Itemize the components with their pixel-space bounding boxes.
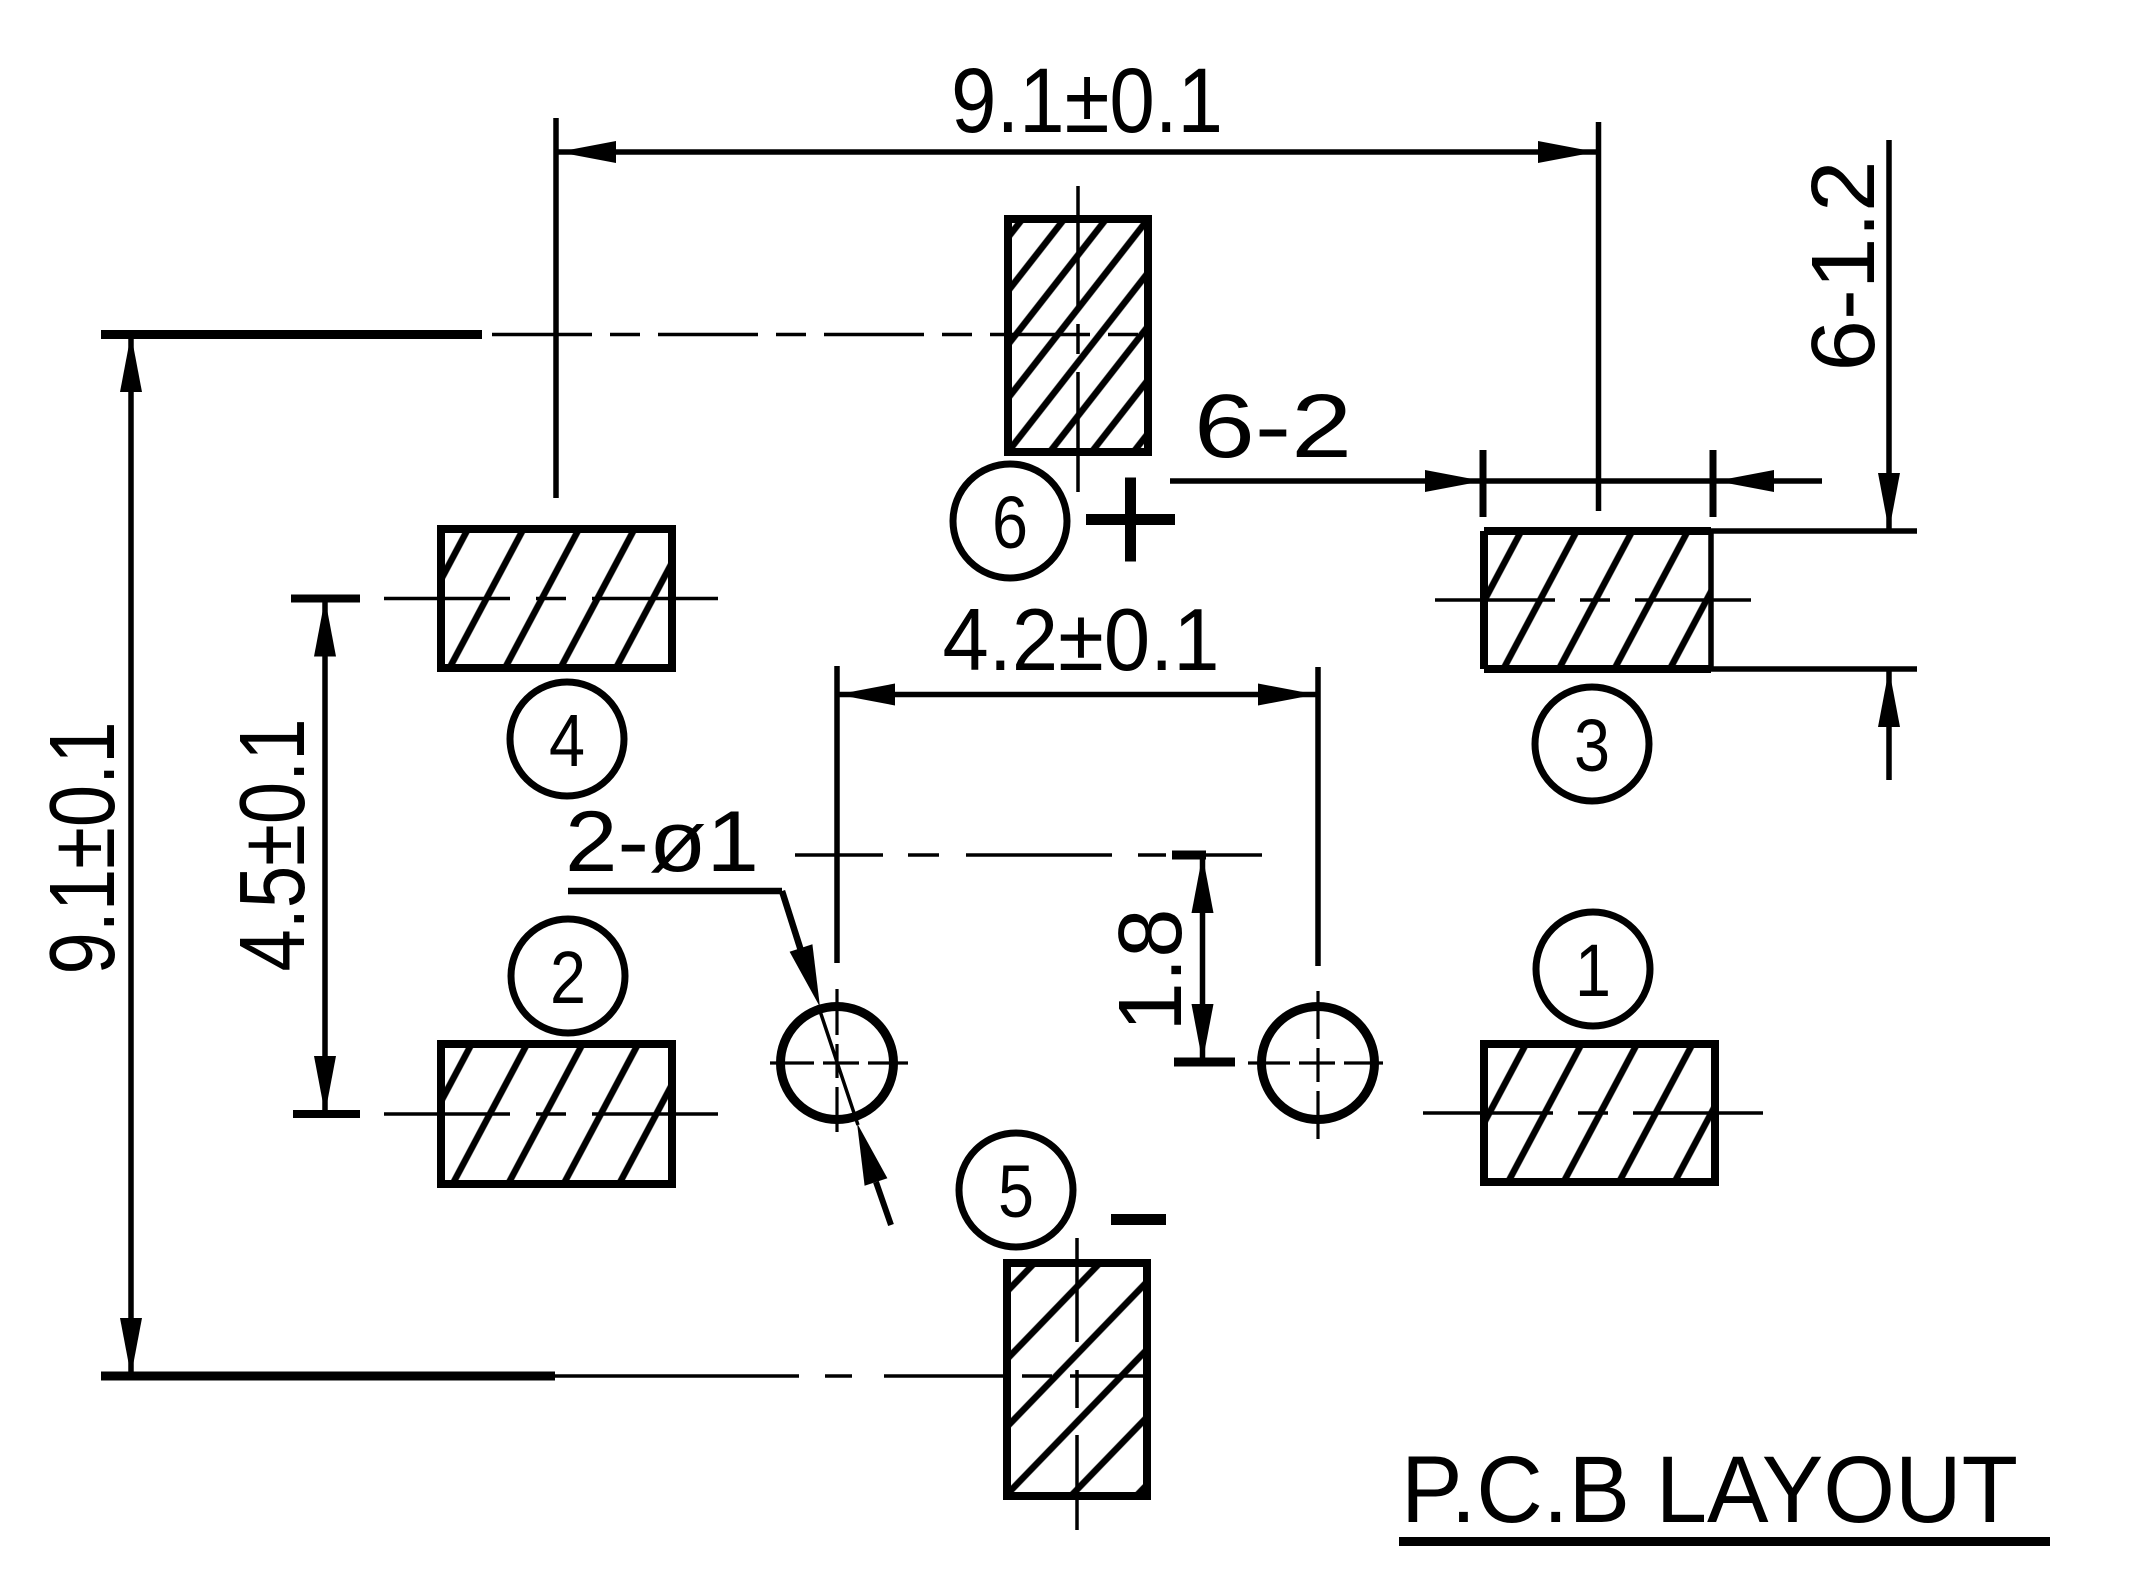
dimension 1.8: bottom tick [1174,1058,1235,1067]
svg-text:4.5±0.1: 4.5±0.1 [220,719,324,972]
boundary line top [101,330,482,339]
pin label 6: circle [953,464,1067,578]
svg-text:3: 3 [1574,704,1610,787]
svg-text:1: 1 [1575,929,1611,1012]
hole left (ø1) [781,1007,894,1120]
centerline bottom horizontal [555,1374,1145,1378]
hole left: horizontal center mark [770,1061,908,1064]
leader 2-ø1: thin line through hole [818,1005,858,1125]
dimension 9.1±0.1 top: left arrowhead [558,141,616,163]
dimension 9.1±0.1 top: dimension line [558,149,1596,155]
svg-text:6-1.2: 6-1.2 [1794,161,1894,372]
centerline vertical bottom (pad 5 axis) [1075,1238,1079,1530]
dimension 6-2: line between ticks [1483,478,1713,484]
hole right: vertical center mark [1316,991,1319,1139]
leader 2-ø1: arrowhead to hole [790,944,820,1007]
dimension 4.2±0.1: right extension line [1315,667,1321,966]
dimension 4.2±0.1: right arrowhead [1258,684,1316,706]
hole left: vertical center mark [835,989,838,1132]
pin label 5: circle [959,1133,1073,1247]
dimension 6-1.2: up arrowhead [1878,669,1900,727]
dimension 9.1±0.1 left: top arrowhead [120,334,142,392]
svg-text:2-ø1: 2-ø1 [565,794,759,890]
svg-text:2: 2 [550,936,586,1019]
centerline pad 2 [384,1112,723,1116]
hole right: horizontal center mark [1248,1061,1383,1064]
svg-text:9.1±0.1: 9.1±0.1 [30,722,134,975]
dimension 1.8: top tick [1172,851,1206,860]
leader 2-ø1: lower tail [876,1182,891,1225]
pad 3 (hatched) [1484,531,1711,669]
dimension 6-1.2: upper line [1886,140,1892,531]
pad 6 (hatched) [1008,219,1148,452]
svg-text:9.1±0.1: 9.1±0.1 [951,50,1223,152]
pad 3 edge extension lines [1711,531,1917,669]
dimension 4.2±0.1: left arrowhead [837,684,895,706]
dimension 4.5±0.1: dimension line [322,599,328,1115]
dimension 1.8: top arrowhead [1192,855,1214,913]
svg-text:P.C.B LAYOUT: P.C.B LAYOUT [1401,1437,2018,1543]
dimension 9.1±0.1 top: left extension line [553,118,559,498]
minus sign [1111,1214,1166,1225]
pad 2 (hatched) [441,1044,672,1184]
pin label 1: circle [1536,912,1650,1026]
centerline middle horizontal [795,853,1285,857]
dimension 1.8: dimension line [1200,855,1206,1062]
dimension 4.2±0.1: dimension line [837,692,1316,698]
dimension 4.5±0.1: top tick [291,595,360,603]
dimension 4.5±0.1: top arrowhead [314,599,336,657]
centerline pad 3 [1435,598,1751,602]
leader 2-ø1: slanted segment [782,891,803,957]
dimension 1.8: bottom arrowhead [1192,1004,1214,1062]
boundary line bottom [101,1372,555,1381]
dimension 6-2: tail line right [1716,478,1822,484]
centerline top horizontal [492,333,1148,337]
dimension 4.5±0.1: bottom arrowhead [314,1056,336,1114]
title underline [1399,1537,2050,1546]
plus sign [1086,478,1175,562]
dimension 9.1±0.1 left: bottom arrowhead [120,1318,142,1376]
centerline pad 4 [384,597,729,601]
pin label 4: circle [510,682,624,796]
dimension 4.5±0.1: bottom tick [293,1110,360,1118]
dimension 9.1±0.1 top: right extension line [1596,122,1602,511]
pin label 3: circle [1535,687,1649,801]
leader 2-ø1: lower arrowhead [857,1123,887,1186]
pin label 2: circle [511,919,625,1033]
pad 5 (hatched) [1007,1263,1147,1496]
dimension 6-2: dimension line left [1170,478,1483,484]
svg-text:6-2: 6-2 [1194,377,1352,477]
dimension 6-1.2: lower line [1886,669,1892,780]
dimension 6-1.2: down arrowhead [1878,473,1900,531]
dimension 6-2: tick left [1480,450,1487,517]
pad 4 (hatched) [441,529,672,668]
dimension 9.1±0.1 top: right arrowhead [1538,141,1596,163]
leader 2-ø1: underline [568,888,782,895]
svg-text:6: 6 [992,481,1028,564]
pad 1 (hatched) [1484,1044,1715,1182]
dimension 9.1±0.1 left: dimension line [128,334,134,1376]
svg-text:4.2±0.1: 4.2±0.1 [943,590,1220,689]
dimension 6-2: tick right [1710,450,1717,517]
svg-text:4: 4 [549,699,585,782]
svg-text:5: 5 [998,1150,1034,1233]
dimension 6-2: right-pointing arrowhead [1425,470,1483,492]
hole right (ø1) [1262,1007,1375,1120]
dimension 6-2: left-pointing arrowhead [1716,470,1774,492]
dimension 4.2±0.1: left extension line [834,666,840,963]
centerline vertical top (pad 6 axis) [1076,186,1080,504]
centerline pad 1 [1423,1111,1782,1115]
svg-text:1.8: 1.8 [1101,909,1201,1032]
